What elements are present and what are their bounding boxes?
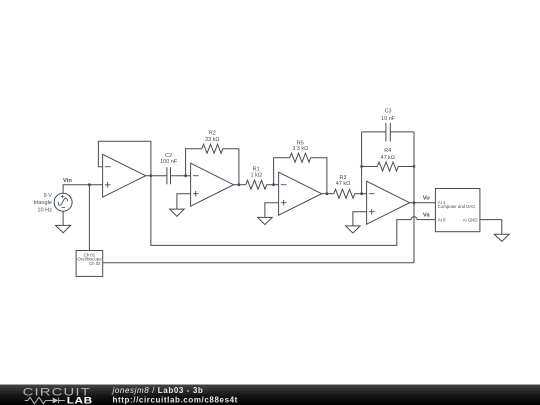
R2 label 33 kOhm: [205, 130, 220, 143]
ground (U2): [170, 209, 185, 216]
wire R1 to op-amp U3: [267, 184, 279, 186]
svg-text:R4: R4: [384, 148, 391, 154]
C2 label: [160, 153, 178, 165]
wire U2 output: [234, 184, 246, 186]
resistor R5: [290, 153, 311, 162]
wire hop to DAC AI 0 pin: [417, 219, 435, 221]
wire U3 non-inverting input to ground: [265, 203, 279, 218]
capacitor C3: [386, 123, 390, 142]
node U1 output: [150, 174, 153, 177]
wire R3 to op-amp U4: [355, 193, 367, 195]
wire U4 non-inverting input to ground: [353, 212, 367, 226]
svg-text:100 nF: 100 nF: [160, 159, 178, 165]
svg-text:http://circuitlab.com/c88es4t: http://circuitlab.com/c88es4t: [113, 396, 238, 405]
wire Va net from U1 output to AI 0 with hop over Vo wire: [151, 176, 411, 246]
R3 label 47 kOhm: [336, 175, 351, 187]
svg-text:C3: C3: [385, 109, 392, 115]
svg-text:10 nF: 10 nF: [381, 116, 396, 122]
R4 label 47 kOhm: [381, 148, 396, 161]
resistor R1: [246, 180, 267, 189]
R5 label 3.3 kOhm: [292, 140, 308, 152]
wire U4 feedback left leg: [361, 132, 363, 194]
svg-text:triangle: triangle: [34, 200, 52, 206]
svg-text:33 kΩ: 33 kΩ: [205, 137, 220, 143]
wire U4 output Vo to DAC block: [410, 202, 436, 204]
capacitor C2: [167, 167, 171, 184]
node junction Vin: [88, 183, 91, 186]
wire hop over vertical Vo wire: [411, 217, 417, 220]
svg-text:Computer and DAC: Computer and DAC: [438, 204, 476, 209]
node U2 inverting input junction: [184, 174, 187, 177]
svg-text:Va: Va: [423, 213, 431, 219]
op-amp U4: [367, 181, 410, 224]
op-amp U3: [279, 172, 322, 215]
ground (U3): [258, 217, 273, 224]
wire U3 output: [322, 193, 334, 195]
svg-text:Vo: Vo: [423, 196, 430, 202]
wire V1 top to op-amp input: [63, 185, 103, 194]
CircuitLab logo resistor-diode squiggle: [25, 397, 65, 403]
svg-text:AI 0: AI 0: [438, 218, 446, 223]
svg-text:R3: R3: [339, 175, 346, 181]
op-amp U2: [191, 163, 234, 206]
ground (AI GND): [494, 234, 509, 241]
svg-text:9 V: 9 V: [44, 193, 53, 199]
svg-text:jonesjm8 / Lab03 - 3b: jonesjm8 / Lab03 - 3b: [112, 386, 204, 395]
svg-text:47 kΩ: 47 kΩ: [381, 155, 396, 161]
resistor R2: [202, 144, 223, 153]
V1 value label 9 V triangle 10 Hz: [34, 193, 53, 214]
wire U1 feedback output to inverting input: [98, 141, 150, 175]
ground (U4): [346, 226, 361, 233]
wire U2 non-inverting input to ground: [177, 194, 191, 209]
wire V1 bottom to ground: [62, 211, 64, 225]
wire C3 rail: [362, 131, 414, 133]
wire junction to oscilloscope Ch01: [88, 185, 90, 251]
oscilloscope pin labels: [77, 253, 102, 266]
resistor R3: [334, 189, 355, 198]
svg-text:10 Hz: 10 Hz: [37, 208, 52, 214]
C3 label 10 nF: [381, 109, 396, 122]
svg-text:C2: C2: [165, 153, 172, 159]
wire R4 rail: [362, 166, 414, 168]
R1 label 1 kOhm: [250, 166, 261, 178]
node U4 inverting input junction: [360, 192, 363, 195]
resistor R4: [377, 162, 398, 171]
svg-text:LAB: LAB: [67, 396, 93, 405]
svg-text:AI GND: AI GND: [463, 218, 478, 223]
node U3 inverting input junction: [272, 183, 275, 186]
ground (source): [56, 225, 71, 232]
svg-text:47 kΩ: 47 kΩ: [336, 181, 351, 187]
DAC block Computer and DAC: [435, 189, 480, 232]
wire U3 feedback rail: [274, 158, 327, 194]
wire U1 output: [146, 175, 167, 177]
wire U2 feedback rail: [186, 149, 239, 185]
wire AI GND to ground: [480, 220, 502, 235]
wire U4 feedback right leg down to output and Ch02 rail: [103, 132, 414, 263]
node R4 right junction: [413, 165, 416, 168]
DAC block pin and name labels: [438, 200, 478, 223]
svg-text:Vin: Vin: [63, 178, 72, 184]
svg-text:R2: R2: [209, 130, 216, 136]
oscilloscope XSC1: [76, 251, 103, 277]
voltage source V1: [54, 193, 72, 211]
svg-text:Ch 02: Ch 02: [89, 261, 101, 266]
wire C2 to op-amp U2: [171, 175, 191, 177]
node U2 output: [238, 183, 241, 186]
footer bar: [0, 385, 540, 405]
svg-text:1 kΩ: 1 kΩ: [250, 172, 261, 178]
node U3 output: [326, 192, 329, 195]
svg-text:3.3 kΩ: 3.3 kΩ: [292, 146, 308, 152]
node U4 output Vo: [413, 201, 416, 204]
node R4 left junction: [360, 165, 363, 168]
op-amp U1 (buffer): [103, 154, 146, 197]
